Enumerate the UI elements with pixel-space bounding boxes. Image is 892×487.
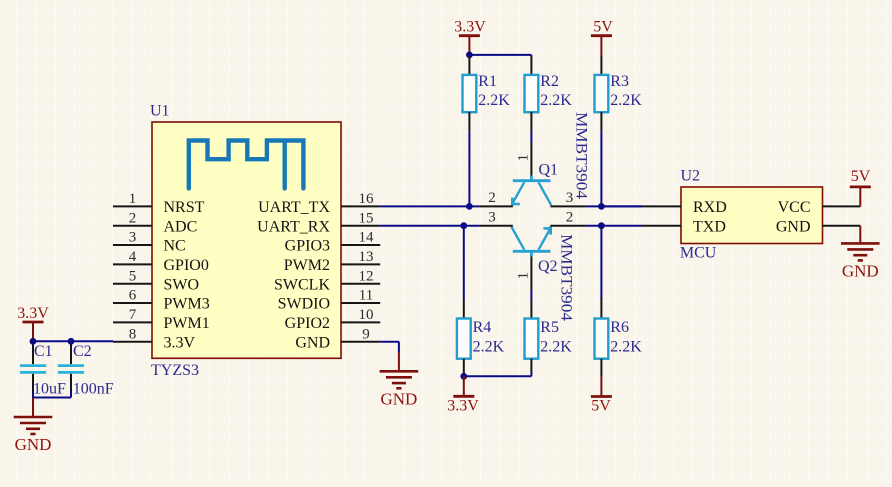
U2 pin TXD <box>642 218 725 235</box>
junction at R1 top <box>466 52 473 59</box>
Q2 pin 3 (collector) <box>480 210 513 226</box>
power port 5V (bottom, inverted) <box>591 377 612 415</box>
svg-text:2.2K: 2.2K <box>540 338 572 355</box>
U1 pin 2 (ADC) <box>113 210 197 235</box>
U1 pin 1 (NRST) <box>113 191 205 216</box>
U2 pin GND <box>776 218 860 235</box>
power port 3.3V (top) <box>454 19 486 55</box>
Q1 pin 3 (collector) <box>550 190 585 206</box>
junction TXD/R6 <box>598 222 605 229</box>
svg-text:U1: U1 <box>150 103 170 120</box>
svg-text:1: 1 <box>129 191 137 207</box>
svg-text:6: 6 <box>129 288 137 304</box>
power port 3.3V (bottom, inverted) <box>447 376 479 414</box>
U1 pin 3 (NC) <box>113 230 186 255</box>
svg-text:4: 4 <box>129 249 137 265</box>
wire R1 bottom to TX node <box>468 131 470 206</box>
svg-text:3: 3 <box>566 190 574 206</box>
U1 pin 13 (PWM2) <box>284 249 380 274</box>
U1 pin 14 (GPIO3) <box>285 230 381 255</box>
svg-text:2: 2 <box>488 190 496 206</box>
svg-text:2.2K: 2.2K <box>610 92 642 109</box>
wire R3 bottom to RXD node <box>600 131 602 206</box>
svg-text:RXD: RXD <box>693 199 727 216</box>
op-amp U2 body (MCU) <box>681 187 823 244</box>
U2 pin RXD <box>642 199 726 216</box>
Q1 pin 2 (emitter) <box>480 190 513 206</box>
svg-text:11: 11 <box>359 288 373 304</box>
svg-text:GPIO2: GPIO2 <box>285 315 330 332</box>
U1 antenna symbol <box>189 141 304 189</box>
wire 3.3V rail to U1 pin 8 <box>33 340 113 342</box>
svg-text:PWM2: PWM2 <box>284 257 330 274</box>
svg-text:2.2K: 2.2K <box>473 338 505 355</box>
U1 pin 4 (GPIO0) <box>113 249 209 274</box>
svg-text:GND: GND <box>380 390 417 409</box>
Q2 value MMBT3904 <box>558 234 575 321</box>
svg-text:U2: U2 <box>681 168 701 185</box>
svg-text:3.3V: 3.3V <box>17 305 49 322</box>
Q2 pin 2 (emitter) <box>550 210 585 226</box>
junction RXD/R3 <box>598 203 605 210</box>
svg-text:NC: NC <box>164 238 186 255</box>
svg-text:SWCLK: SWCLK <box>274 276 330 293</box>
U1 pin 10 (GPIO2) <box>285 307 381 332</box>
svg-text:R5: R5 <box>540 319 559 336</box>
resistor R4 <box>457 299 505 376</box>
svg-text:5V: 5V <box>593 19 613 36</box>
svg-text:1: 1 <box>516 272 532 280</box>
svg-text:GPIO0: GPIO0 <box>164 257 209 274</box>
svg-text:C2: C2 <box>73 343 92 360</box>
U1 pin 6 (PWM3) <box>113 288 210 313</box>
svg-text:2: 2 <box>566 210 574 226</box>
svg-text:C1: C1 <box>34 343 53 360</box>
svg-text:R3: R3 <box>610 73 629 90</box>
wire R4-R5 bottom rail <box>464 372 532 377</box>
junction at C2 top <box>68 338 75 345</box>
svg-text:16: 16 <box>359 191 375 207</box>
svg-text:Q1: Q1 <box>539 162 559 179</box>
svg-text:3.3V: 3.3V <box>447 397 479 414</box>
U1 pin 5 (SWO) <box>113 268 199 293</box>
wire UART_RX row (U1 pin15 to Q2 c) <box>380 225 480 227</box>
svg-text:PWM1: PWM1 <box>164 315 210 332</box>
svg-text:GND: GND <box>15 435 52 454</box>
U2 pin VCC <box>778 199 861 216</box>
svg-text:5V: 5V <box>851 168 871 185</box>
wire RX node to R4 top <box>463 226 465 299</box>
wire Q2 base to R5 top <box>530 290 532 300</box>
svg-text:1: 1 <box>516 154 532 162</box>
svg-text:3: 3 <box>488 210 496 226</box>
U2 designator <box>681 168 701 185</box>
U1 pin 16 (UART_TX) <box>258 191 380 216</box>
power port 5V (top) <box>591 19 613 56</box>
Q1 value MMBT3904 <box>573 112 590 199</box>
U1 pin 8 (3.3V) <box>113 326 196 351</box>
svg-text:7: 7 <box>129 307 137 323</box>
svg-text:TXD: TXD <box>693 218 726 235</box>
svg-text:12: 12 <box>359 268 374 284</box>
wire Q2 e to U2 TXD <box>586 225 643 227</box>
svg-text:ADC: ADC <box>164 218 198 235</box>
U1 pin 7 (PWM1) <box>113 307 210 332</box>
svg-text:10: 10 <box>359 307 374 323</box>
op-amp U1 body (TYZS3 module) <box>152 122 341 358</box>
svg-text:GND: GND <box>776 218 811 235</box>
junction at C1 top <box>30 338 37 345</box>
svg-text:9: 9 <box>362 326 370 342</box>
svg-text:R1: R1 <box>478 73 497 90</box>
svg-text:GND: GND <box>295 334 330 351</box>
svg-text:14: 14 <box>359 230 375 246</box>
svg-text:2.2K: 2.2K <box>478 92 510 109</box>
svg-text:10uF: 10uF <box>33 381 66 398</box>
svg-text:Q2: Q2 <box>538 258 558 275</box>
resistor R5 <box>525 301 573 372</box>
svg-text:VCC: VCC <box>778 199 811 216</box>
svg-text:3: 3 <box>129 230 137 246</box>
svg-text:5: 5 <box>129 268 137 284</box>
svg-text:2.2K: 2.2K <box>610 338 642 355</box>
transistor Q2 pin 1 lead <box>516 256 532 290</box>
svg-text:15: 15 <box>359 210 374 226</box>
resistor R2 <box>525 56 573 131</box>
U1 pin 9 (GND) <box>295 326 380 351</box>
svg-text:UART_TX: UART_TX <box>258 199 330 216</box>
U2 comment MCU <box>680 245 717 262</box>
svg-text:GND: GND <box>842 262 879 281</box>
U1 pin 12 (SWCLK) <box>274 268 380 293</box>
svg-text:3.3V: 3.3V <box>164 334 196 351</box>
transistor Q1 pin 1 lead <box>516 142 532 176</box>
wire R6 top to TXD node <box>600 226 602 299</box>
wire R2 bottom to Q1 base <box>530 131 532 142</box>
svg-text:UART_RX: UART_RX <box>257 218 330 235</box>
svg-text:NRST: NRST <box>164 199 205 216</box>
wire U1 pin 9 to ground <box>380 342 399 353</box>
power port 5V (U2 VCC) <box>850 168 871 206</box>
power port 3.3V (left) <box>17 305 49 341</box>
svg-text:SWDIO: SWDIO <box>278 296 330 313</box>
svg-text:R2: R2 <box>540 73 559 90</box>
U1 comment TYZS3 <box>151 362 199 379</box>
svg-text:PWM3: PWM3 <box>164 296 210 313</box>
resistor R1 <box>463 55 511 131</box>
wire UART_TX row (U1 pin16 to Q1 e) <box>380 205 480 207</box>
transistor Q1 <box>512 162 558 207</box>
junction TX/R1 <box>466 203 473 210</box>
svg-text:MMBT3904: MMBT3904 <box>558 234 575 321</box>
svg-text:GPIO3: GPIO3 <box>285 238 330 255</box>
junction R4 bottom <box>460 373 467 380</box>
svg-text:5V: 5V <box>591 398 611 415</box>
svg-text:2.2K: 2.2K <box>540 92 572 109</box>
ground GND (U2) <box>841 226 880 281</box>
wire 3.3V to R2 top <box>469 55 531 57</box>
capacitor C1 <box>20 341 66 397</box>
wire RXD node to U2 <box>601 205 642 207</box>
wire Q1 c to U2 RXD <box>586 205 643 207</box>
U1 designator <box>150 103 170 120</box>
svg-text:MCU: MCU <box>680 245 717 262</box>
U1 pin 11 (SWDIO) <box>278 288 381 313</box>
resistor R6 <box>595 298 643 377</box>
ground GND (left) <box>14 398 53 455</box>
svg-text:MMBT3904: MMBT3904 <box>573 112 590 199</box>
svg-text:3.3V: 3.3V <box>454 19 486 36</box>
svg-text:TYZS3: TYZS3 <box>151 362 199 379</box>
svg-text:8: 8 <box>129 326 137 342</box>
capacitor C2 <box>58 341 114 397</box>
svg-text:R4: R4 <box>473 319 492 336</box>
resistor R3 <box>595 56 643 131</box>
ground GND (U1 pin 9) <box>380 352 419 409</box>
U1 pin 15 (UART_RX) <box>257 210 380 235</box>
svg-text:SWO: SWO <box>164 276 200 293</box>
wire C1-C2 bottom rail <box>33 391 71 397</box>
svg-text:100nF: 100nF <box>73 381 114 398</box>
svg-text:13: 13 <box>359 249 374 265</box>
svg-text:2: 2 <box>129 210 137 226</box>
junction RX/R4 <box>460 222 467 229</box>
transistor Q2 <box>511 226 557 275</box>
svg-text:R6: R6 <box>610 319 629 336</box>
